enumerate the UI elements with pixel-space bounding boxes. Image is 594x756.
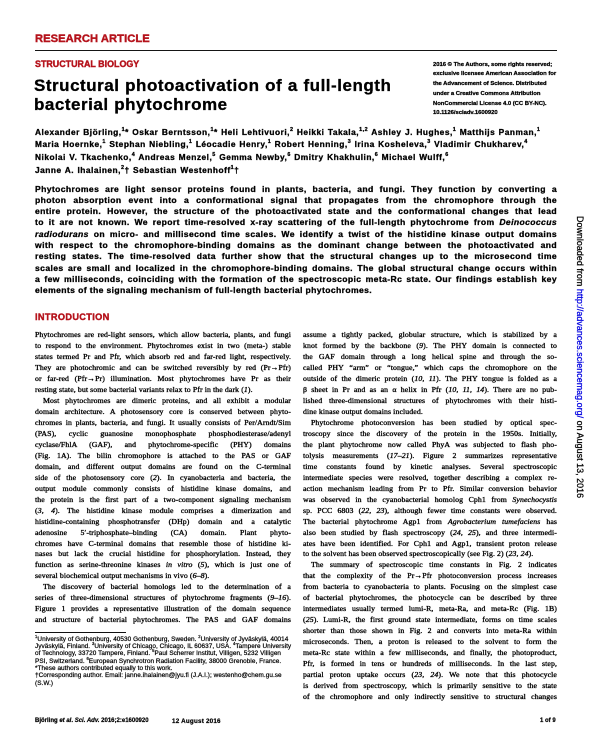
right column body [303, 330, 557, 702]
license block [433, 61, 563, 120]
authors [35, 126, 580, 177]
field: STRUCTURAL BIOLOGY [35, 60, 139, 70]
INTRODUCTION heading [35, 312, 110, 322]
footer date [172, 718, 221, 725]
sidebar: downloaded-from notice [575, 216, 585, 498]
title [34, 76, 391, 115]
kicker: RESEARCH ARTICLE [35, 33, 150, 45]
abstract [35, 184, 557, 297]
header rule [35, 50, 557, 51]
left column body [35, 330, 291, 626]
footer page number [540, 718, 556, 724]
footnotes [35, 636, 297, 687]
footer left [35, 718, 149, 724]
footnote rule [35, 632, 126, 633]
